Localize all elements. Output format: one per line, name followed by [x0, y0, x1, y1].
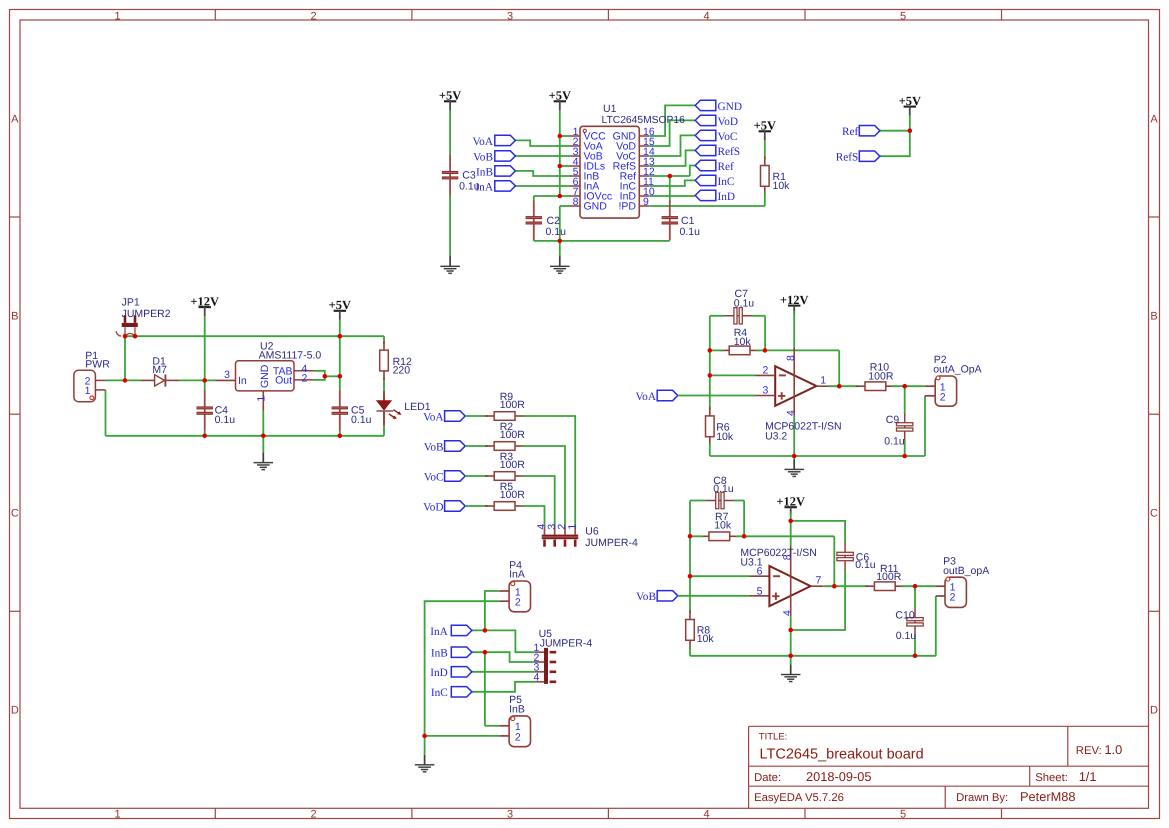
svg-text:2018-09-05: 2018-09-05: [806, 769, 871, 784]
svg-text:InB: InB: [476, 166, 493, 178]
svg-text:VoA: VoA: [423, 411, 444, 423]
svg-text:0.1u: 0.1u: [896, 630, 917, 642]
svg-text:2: 2: [310, 11, 316, 23]
svg-text:U3.1: U3.1: [740, 556, 762, 568]
svg-text:100R: 100R: [500, 489, 526, 501]
svg-text:VoA: VoA: [635, 391, 656, 403]
svg-text:2: 2: [310, 809, 316, 821]
svg-text:VoB: VoB: [636, 591, 656, 603]
svg-text:In: In: [238, 375, 247, 387]
svg-text:+12V: +12V: [776, 494, 805, 508]
svg-text:D: D: [11, 705, 19, 717]
svg-text:TITLE:: TITLE:: [759, 731, 788, 742]
svg-text:VoD: VoD: [423, 501, 444, 513]
svg-text:1.0: 1.0: [1105, 742, 1123, 757]
svg-text:100R: 100R: [500, 429, 526, 441]
svg-text:!PD: !PD: [618, 201, 636, 213]
svg-text:Date:: Date:: [754, 772, 781, 784]
svg-text:2: 2: [515, 731, 521, 743]
svg-text:0.1u: 0.1u: [734, 297, 755, 309]
svg-text:3: 3: [507, 809, 513, 821]
svg-text:PWR: PWR: [85, 359, 110, 371]
svg-text:0.1u: 0.1u: [546, 226, 567, 238]
svg-text:8: 8: [785, 355, 797, 361]
svg-text:0.1u: 0.1u: [459, 181, 480, 193]
svg-text:4: 4: [781, 610, 793, 616]
svg-text:Out: Out: [275, 375, 292, 387]
svg-text:Ref: Ref: [842, 126, 859, 138]
svg-text:outA_OpA: outA_OpA: [933, 364, 981, 376]
svg-text:8: 8: [573, 196, 579, 208]
svg-text:5: 5: [900, 11, 906, 23]
svg-text:VoB: VoB: [424, 441, 444, 453]
svg-text:100R: 100R: [500, 399, 526, 411]
svg-text:JP1: JP1: [122, 297, 140, 309]
svg-text:10k: 10k: [716, 431, 734, 443]
svg-text:JUMPER2: JUMPER2: [122, 308, 171, 320]
svg-text:1: 1: [256, 396, 268, 402]
svg-text:7: 7: [816, 575, 822, 587]
svg-text:+12V: +12V: [780, 293, 809, 307]
svg-text:InD: InD: [718, 191, 736, 203]
svg-text:4: 4: [703, 809, 709, 821]
svg-text:1: 1: [566, 524, 578, 530]
svg-text:AMS1117-5.0: AMS1117-5.0: [259, 349, 322, 361]
svg-text:C10: C10: [895, 609, 914, 621]
svg-text:2: 2: [762, 365, 768, 377]
svg-text:Drawn By:: Drawn By:: [956, 792, 1008, 804]
svg-text:0.1u: 0.1u: [215, 414, 236, 426]
svg-text:VoA: VoA: [472, 136, 493, 148]
svg-text:10k: 10k: [697, 633, 715, 645]
svg-text:PeterM88: PeterM88: [1020, 789, 1075, 804]
svg-text:4: 4: [534, 672, 540, 684]
svg-text:10k: 10k: [734, 336, 752, 348]
svg-text:0.1u: 0.1u: [680, 226, 701, 238]
svg-text:+5V: +5V: [754, 119, 776, 133]
svg-text:Ref: Ref: [718, 161, 735, 173]
svg-text:1/1: 1/1: [1079, 769, 1097, 784]
svg-text:9: 9: [643, 196, 649, 208]
svg-text:3: 3: [762, 385, 768, 397]
svg-text:3: 3: [507, 11, 513, 23]
svg-text:2: 2: [950, 591, 956, 603]
svg-text:LTC2645_breakout board: LTC2645_breakout board: [760, 747, 924, 763]
svg-text:InD: InD: [430, 667, 448, 679]
svg-text:RefS: RefS: [718, 146, 741, 158]
svg-text:C: C: [1150, 508, 1158, 520]
svg-text:B: B: [11, 311, 18, 323]
svg-text:REV:: REV:: [1076, 745, 1102, 757]
svg-text:10k: 10k: [714, 520, 732, 532]
svg-text:0.1u: 0.1u: [713, 483, 734, 495]
svg-text:2: 2: [302, 372, 308, 384]
svg-text:C9: C9: [886, 414, 900, 426]
svg-text:A: A: [11, 114, 19, 126]
svg-text:InB: InB: [509, 703, 525, 715]
svg-text:B: B: [1150, 311, 1157, 323]
svg-text:VoD: VoD: [718, 116, 739, 128]
svg-text:0.1u: 0.1u: [855, 559, 876, 571]
svg-text:1: 1: [114, 809, 120, 821]
svg-text:0.1u: 0.1u: [884, 435, 905, 447]
svg-text:0.1u: 0.1u: [351, 414, 372, 426]
svg-text:JUMPER-4: JUMPER-4: [585, 537, 638, 549]
svg-text:EasyEDA V5.7.26: EasyEDA V5.7.26: [754, 792, 844, 804]
svg-text:C3: C3: [462, 169, 476, 181]
svg-text:+12V: +12V: [190, 294, 219, 308]
svg-text:+5V: +5V: [899, 94, 921, 108]
svg-text:InA: InA: [430, 626, 448, 638]
svg-text:100R: 100R: [876, 571, 902, 583]
svg-text:VoB: VoB: [473, 151, 493, 163]
svg-text:Sheet:: Sheet:: [1035, 772, 1068, 784]
svg-text:D: D: [1150, 705, 1158, 717]
svg-text:+5V: +5V: [439, 89, 461, 103]
svg-text:1: 1: [820, 375, 826, 387]
svg-text:VoC: VoC: [424, 471, 444, 483]
svg-text:M7: M7: [152, 364, 167, 376]
svg-text:JUMPER-4: JUMPER-4: [540, 638, 593, 650]
svg-text:+5V: +5V: [329, 298, 351, 312]
svg-text:100R: 100R: [868, 371, 894, 383]
svg-text:100R: 100R: [500, 459, 526, 471]
svg-text:VoC: VoC: [718, 131, 738, 143]
svg-text:10k: 10k: [773, 180, 791, 192]
svg-text:GND: GND: [584, 201, 608, 213]
svg-text:InB: InB: [431, 648, 448, 660]
svg-text:LTC2645MSOP16: LTC2645MSOP16: [602, 115, 686, 126]
svg-text:220: 220: [393, 365, 411, 377]
svg-text:4: 4: [703, 11, 709, 23]
svg-text:1: 1: [114, 11, 120, 23]
svg-text:RefS: RefS: [836, 152, 859, 164]
svg-text:U1: U1: [603, 103, 617, 115]
svg-text:outB_opA: outB_opA: [943, 565, 989, 577]
svg-text:A: A: [1150, 114, 1158, 126]
svg-text:4: 4: [785, 410, 797, 416]
svg-text:InC: InC: [431, 687, 448, 699]
svg-text:GND: GND: [259, 364, 271, 388]
svg-text:U6: U6: [585, 526, 599, 538]
svg-text:5: 5: [900, 809, 906, 821]
svg-text:+5V: +5V: [549, 89, 571, 103]
svg-text:InA: InA: [509, 568, 525, 580]
svg-text:C: C: [11, 508, 19, 520]
svg-text:2: 2: [515, 597, 521, 609]
svg-text:1: 1: [85, 385, 91, 397]
svg-text:2: 2: [940, 391, 946, 403]
svg-text:GND: GND: [718, 101, 742, 113]
svg-text:5: 5: [757, 585, 763, 597]
svg-text:InC: InC: [718, 176, 735, 188]
svg-text:U3.2: U3.2: [765, 430, 787, 442]
svg-text:3: 3: [224, 369, 230, 381]
